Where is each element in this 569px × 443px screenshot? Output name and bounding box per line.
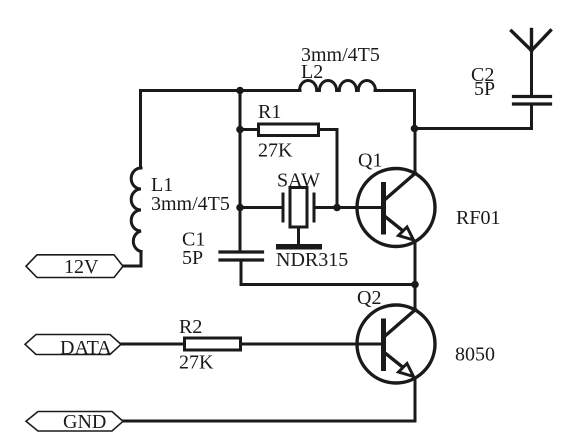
wire collector Q1 (414, 129, 417, 174)
wire emitter Q1 (414, 242, 417, 285)
wire left vertical (139, 91, 142, 169)
wire base Q1 (337, 206, 381, 209)
wire DATA to R2 (121, 343, 185, 346)
svg-text:Q2: Q2 (357, 287, 381, 309)
resistor R2 (185, 338, 241, 350)
SAW resonator body (290, 188, 307, 228)
connector DATA (25, 335, 121, 355)
node junction C2 tap (411, 125, 419, 133)
wire collector Q2 (414, 285, 417, 311)
svg-text:3mm/4T5: 3mm/4T5 (151, 193, 230, 215)
svg-text:L2: L2 (301, 61, 323, 83)
wire top horizontal (141, 89, 301, 92)
wire to C2 (415, 106, 532, 129)
connector 12V (26, 255, 123, 278)
svg-text:GND: GND (63, 411, 106, 433)
svg-text:NDR315: NDR315 (276, 249, 348, 271)
connector GND (26, 412, 123, 432)
svg-text:R2: R2 (179, 316, 202, 338)
wire R1 left lead (240, 128, 259, 131)
resistor R1 (259, 124, 319, 136)
inductor L1 (131, 168, 141, 252)
svg-text:SAW: SAW (277, 170, 320, 192)
svg-text:DATA: DATA (60, 337, 112, 359)
capacitor C1 (220, 252, 263, 260)
inductor L2 (300, 80, 376, 90)
svg-text:27K: 27K (179, 352, 214, 374)
wire SAW left lead (240, 206, 283, 209)
wire SAW right lead (314, 206, 337, 209)
wire C2 to antenna (530, 51, 533, 96)
wire SAW case ground stem (297, 227, 300, 244)
wire center vertical (239, 91, 242, 251)
SAW case ground bar NDR315 (276, 244, 322, 250)
transistor Q2 (357, 305, 435, 383)
node junction emitter Q1 (411, 281, 419, 289)
wire C1 bottom to node (241, 261, 415, 285)
svg-text:27K: 27K (258, 140, 293, 162)
wire L1 bottom to 12V (123, 252, 141, 267)
wire R2 to base Q2 (241, 343, 382, 346)
wire emitter Q2 to GND rail (414, 378, 417, 421)
wire R1 right to base node (319, 130, 338, 208)
node junction R1 left (236, 126, 244, 134)
svg-text:5P: 5P (182, 247, 203, 269)
svg-text:Q1: Q1 (358, 150, 382, 172)
svg-text:R1: R1 (258, 101, 281, 123)
svg-text:8050: 8050 (455, 344, 495, 366)
svg-text:5P: 5P (474, 78, 495, 100)
svg-text:12V: 12V (64, 256, 99, 278)
capacitor C2 (514, 97, 551, 105)
transistor Q1 (357, 169, 435, 247)
wire GND rail (123, 420, 415, 423)
wire L2 right to corner (375, 91, 415, 129)
SAW resonator right plate (313, 194, 316, 221)
node junction top (236, 87, 244, 95)
node junction base Q1 (333, 204, 341, 212)
antenna (512, 30, 551, 51)
svg-text:RF01: RF01 (456, 207, 500, 229)
SAW resonator plates (282, 194, 285, 221)
node junction SAW left (236, 204, 244, 212)
